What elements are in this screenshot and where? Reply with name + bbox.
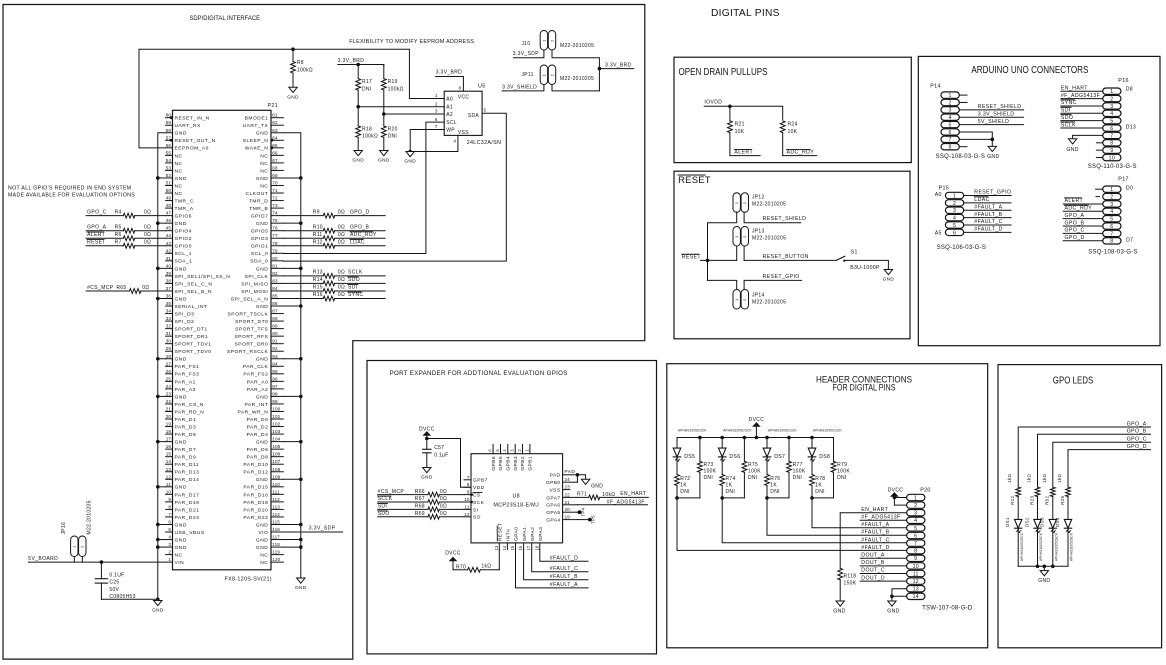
svg-text:GND: GND xyxy=(256,131,268,137)
P14 pin8 stub xyxy=(959,146,967,148)
svg-text:PAR_D15: PAR_D15 xyxy=(243,485,268,491)
svg-text:J10: J10 xyxy=(522,41,531,47)
svg-text:83: 83 xyxy=(272,278,278,283)
svg-text:R70: R70 xyxy=(456,564,466,570)
svg-text:SDA_0: SDA_0 xyxy=(250,259,268,265)
svg-text:3: 3 xyxy=(1110,104,1113,110)
svg-text:115: 115 xyxy=(272,519,280,524)
P16 pin 7 xyxy=(1103,132,1121,138)
P21 left pin 36 GND xyxy=(166,297,173,299)
resistor R13 0 ohm xyxy=(323,273,334,278)
svg-text:GND: GND xyxy=(1038,578,1050,584)
P21 left pin 60 RESET_IN_N xyxy=(166,117,173,119)
svg-text:PAR_D2: PAR_D2 xyxy=(247,424,269,430)
svg-text:R68: R68 xyxy=(415,504,425,510)
svg-text:DNI: DNI xyxy=(748,475,758,481)
svg-text:PAR_D16: PAR_D16 xyxy=(243,492,268,498)
svg-text:GND: GND xyxy=(175,522,187,528)
svg-text:R67: R67 xyxy=(415,496,425,502)
svg-text:R6: R6 xyxy=(115,232,122,238)
P17 pin1 stub xyxy=(1096,188,1103,190)
P21 left pin 39 SPI_SEL1/SPI_SS_N xyxy=(166,275,173,277)
svg-text:CLKOUT: CLKOUT xyxy=(245,191,268,197)
P21 right pin 88 SPORT_DT0 xyxy=(271,320,283,322)
svg-text:GND: GND xyxy=(256,440,268,446)
svg-text:R18: R18 xyxy=(362,127,372,133)
svg-text:JP13: JP13 xyxy=(752,228,765,234)
svg-text:PAR_WR_N: PAR_WR_N xyxy=(237,409,268,415)
svg-text:4: 4 xyxy=(168,535,171,540)
wire J10 pin2 to 3.3V_BRD xyxy=(552,50,599,91)
svg-text:10: 10 xyxy=(913,564,919,570)
svg-text:GPB7: GPB7 xyxy=(473,478,488,484)
jumper J10 M22-2010205 xyxy=(540,31,547,51)
ground symbol R8 xyxy=(289,87,297,92)
svg-text:JP14: JP14 xyxy=(752,292,765,298)
svg-text:0Ω: 0Ω xyxy=(338,224,345,230)
svg-text:2: 2 xyxy=(949,100,952,106)
P16 pin9 stub xyxy=(1096,149,1102,151)
svg-text:3: 3 xyxy=(168,542,171,547)
svg-text:103: 103 xyxy=(272,429,280,434)
U8 left pin 10 SCK xyxy=(464,501,471,503)
resistor R22 1k xyxy=(1016,487,1021,497)
svg-text:PAR_A3: PAR_A3 xyxy=(175,387,196,393)
svg-text:S1: S1 xyxy=(851,250,858,256)
svg-text:DNI: DNI xyxy=(704,475,714,481)
svg-text:100kΩ: 100kΩ xyxy=(388,86,404,92)
resistor R52 1k xyxy=(1050,487,1055,497)
resistor R75 100K DNI xyxy=(743,438,745,462)
svg-text:PAR_D1: PAR_D1 xyxy=(175,417,197,423)
svg-text:112: 112 xyxy=(272,497,280,502)
svg-text:GND: GND xyxy=(256,304,268,310)
svg-text:LDAC: LDAC xyxy=(974,197,989,203)
svg-text:GPB0: GPB0 xyxy=(546,480,561,486)
svg-text:C0805H53: C0805H53 xyxy=(109,594,135,600)
junction dot left bus pin 23 xyxy=(156,395,160,399)
svg-text:SDA: SDA xyxy=(468,113,480,119)
svg-text:53: 53 xyxy=(166,165,172,170)
resistor R71 10k to EN_HART xyxy=(577,496,588,498)
svg-text:SPI_D3: SPI_D3 xyxy=(175,311,195,317)
P21 right pin 101 PAR_D0 xyxy=(271,418,283,420)
P21 left pin 35 SERIAL_INT xyxy=(166,305,173,307)
P21 right pin 100 PAR_WR_N xyxy=(271,410,283,412)
svg-text:GND: GND xyxy=(256,357,268,363)
wire group 3 output xyxy=(767,498,907,535)
svg-text:PAR_D23: PAR_D23 xyxy=(175,515,200,521)
svg-text:#FAULT_A: #FAULT_A xyxy=(550,582,578,588)
junction dot group 2 xyxy=(720,496,724,500)
svg-text:2: 2 xyxy=(914,503,917,509)
svg-text:A2: A2 xyxy=(446,112,453,118)
wire 3.3V_SDP to J10 pin1 xyxy=(514,50,544,58)
svg-text:100K: 100K xyxy=(704,469,717,475)
svg-text:1kΩ: 1kΩ xyxy=(1042,473,1047,482)
svg-text:8: 8 xyxy=(459,85,462,90)
svg-text:20: 20 xyxy=(166,414,172,419)
P21 left pin 12 PAR_D14 xyxy=(166,478,173,480)
svg-text:82: 82 xyxy=(272,271,278,276)
svg-text:R74: R74 xyxy=(726,476,736,482)
wire left GND pin 36 to bus xyxy=(158,297,166,299)
P17 pin 5 xyxy=(1103,215,1121,221)
U8 right pin 20 GPA5 xyxy=(563,511,578,513)
junction dot 3.3V_BRD xyxy=(598,67,602,71)
P21 left pin 49 TMR_C xyxy=(166,200,173,202)
P21 right pin 93 GND xyxy=(271,358,283,360)
svg-text:DNI: DNI xyxy=(793,475,803,481)
svg-text:75: 75 xyxy=(272,218,278,223)
junction dot right bus pin 109 xyxy=(299,477,303,481)
wire P21 pin 85 to R16 xyxy=(283,297,323,299)
U8 left pin 11 SI xyxy=(464,508,471,510)
svg-text:11: 11 xyxy=(465,504,470,509)
junction dot right bus pin 98 xyxy=(299,395,303,399)
wire right GND pin 98 to bus xyxy=(283,395,301,397)
svg-text:GPA4: GPA4 xyxy=(546,518,560,524)
wire P15 pin 2 LDAC xyxy=(964,202,1011,204)
svg-text:GND: GND xyxy=(175,394,187,400)
P17 pin 3 xyxy=(1103,201,1121,207)
svg-text:GND: GND xyxy=(352,158,364,164)
RESET section box xyxy=(674,171,910,339)
wire P16 pin 5 SDO xyxy=(1061,120,1103,122)
svg-text:SDP/DIGITAL INTERFACE: SDP/DIGITAL INTERFACE xyxy=(190,15,261,22)
P21 right pin 105 PAR_D6 xyxy=(271,448,283,450)
svg-text:GPO_B: GPO_B xyxy=(1065,220,1085,226)
OPEN DRAIN PULLUPS section box xyxy=(674,57,911,162)
svg-text:PAR_D4: PAR_D4 xyxy=(247,432,269,438)
svg-text:PAR_INT: PAR_INT xyxy=(245,402,269,408)
P21 right pin 63 GND xyxy=(271,132,283,134)
jumper JP12 M22-2010205 xyxy=(733,193,740,213)
svg-text:5: 5 xyxy=(484,108,487,113)
svg-text:100kΩ: 100kΩ xyxy=(297,68,313,74)
P21 left pin 5 USB_VBUS xyxy=(166,531,173,533)
svg-text:SPI_CLK: SPI_CLK xyxy=(245,274,269,280)
svg-text:RESET_SHIELD: RESET_SHIELD xyxy=(763,216,807,222)
resistor R66 0 ohm xyxy=(428,492,439,497)
wire 3.3V_BRD rail xyxy=(338,65,384,67)
P21 right pin 89 SPORT_TFS xyxy=(271,328,283,330)
svg-text:APHHS1005ZGCK: APHHS1005ZGCK xyxy=(1039,532,1043,561)
U8 left pin 9 CS xyxy=(464,494,471,496)
junction dot right bus pin 81 xyxy=(299,267,303,271)
svg-text:GND: GND xyxy=(175,485,187,491)
svg-text:GND: GND xyxy=(175,266,187,272)
svg-text:94: 94 xyxy=(272,361,278,366)
svg-text:SPORT_RSCLK: SPORT_RSCLK xyxy=(227,349,269,355)
svg-text:7: 7 xyxy=(949,137,952,143)
svg-text:RESET_BUTTON: RESET_BUTTON xyxy=(763,254,809,260)
svg-text:SPORT_DR0: SPORT_DR0 xyxy=(235,342,269,348)
GPO LEDS section box xyxy=(998,365,1162,648)
svg-text:#FAULT_C: #FAULT_C xyxy=(861,537,889,543)
resistor R77 100K DNI xyxy=(788,438,790,462)
svg-text:6: 6 xyxy=(1110,224,1113,230)
junction dot left bus pin 28 xyxy=(156,357,160,361)
junction dot right bus pin 104 xyxy=(299,440,303,444)
U8 left pin 7 GPB7 xyxy=(464,479,471,481)
svg-text:GPO_C: GPO_C xyxy=(87,210,107,216)
U8 bottom pin 14 INTA xyxy=(506,543,508,550)
wire left GND pin 6 to bus xyxy=(158,523,166,525)
svg-text:0Ω: 0Ω xyxy=(338,232,345,238)
P21 left pin 55 NC xyxy=(166,154,173,156)
P21 right pin 106 PAR_D8 xyxy=(271,456,283,458)
P17 pin 1 xyxy=(1103,186,1121,192)
svg-text:GPA7: GPA7 xyxy=(546,495,560,501)
svg-text:PAR_D7: PAR_D7 xyxy=(175,447,197,453)
svg-text:M22-2010205: M22-2010205 xyxy=(560,76,594,82)
svg-text:2: 2 xyxy=(1110,96,1113,102)
wire P17 pin 5 GPO_A xyxy=(1063,218,1103,220)
P15 pin 2 xyxy=(945,200,963,206)
svg-text:SPORT_RFS: SPORT_RFS xyxy=(235,334,269,340)
P14 pin 5 xyxy=(941,121,959,127)
svg-text:FX8-120S-SV(21): FX8-120S-SV(21) xyxy=(225,577,272,583)
LED DS5 xyxy=(676,438,678,449)
svg-text:1: 1 xyxy=(1110,89,1113,95)
wire EN_HART row to R118 xyxy=(840,513,906,569)
svg-text:GND: GND xyxy=(175,545,187,551)
svg-text:66: 66 xyxy=(272,150,278,155)
svg-text:40: 40 xyxy=(166,263,172,268)
svg-text:1kΩ: 1kΩ xyxy=(1027,473,1032,482)
P17 pin 2 xyxy=(1103,193,1121,199)
svg-text:6: 6 xyxy=(914,533,917,539)
svg-text:3: 3 xyxy=(1110,202,1113,208)
svg-text:SCK: SCK xyxy=(473,500,485,506)
ground symbol bottom left xyxy=(154,601,162,606)
svg-text:R118: R118 xyxy=(844,574,857,580)
svg-text:13: 13 xyxy=(166,467,172,472)
svg-text:0Ω: 0Ω xyxy=(440,511,447,517)
svg-text:GND: GND xyxy=(152,608,164,614)
P21 left pin 14 PAR_D11 xyxy=(166,463,173,465)
svg-text:GND: GND xyxy=(175,296,187,302)
ground symbol U8 PAD xyxy=(581,479,589,484)
junction dot U8 CS pin xyxy=(470,493,473,496)
wire P16 pin 3 SYNC xyxy=(1061,105,1103,107)
svg-text:DS6: DS6 xyxy=(729,454,740,460)
svg-text:4: 4 xyxy=(953,216,956,222)
svg-text:0Ω: 0Ω xyxy=(338,239,345,245)
wire P14 pin4 3.3V_SHIELD xyxy=(959,116,1023,118)
P21 right pin 94 PAR_CLK xyxy=(271,365,283,367)
junction dot P20 gnd xyxy=(890,595,894,599)
svg-text:GPO LEDS: GPO LEDS xyxy=(1053,375,1094,386)
svg-text:1: 1 xyxy=(435,93,438,98)
P21 left pin 22 PAR_CS_N xyxy=(166,403,173,405)
svg-text:C25: C25 xyxy=(109,580,119,586)
wire group 3 bottom tie xyxy=(767,497,789,499)
P21 left pin 57 RESET_OUT_N xyxy=(166,139,173,141)
svg-text:PAR_D19: PAR_D19 xyxy=(175,500,200,506)
svg-text:SDI: SDI xyxy=(378,504,388,510)
junction dot U8 SCK pin xyxy=(470,501,473,504)
P21 left pin 48 TMR_A xyxy=(166,207,173,209)
P21 left pin 31 SPORT_DR1 xyxy=(166,335,173,337)
svg-text:NC: NC xyxy=(260,161,268,167)
junction dot VSS gnd xyxy=(408,150,412,154)
svg-text:39: 39 xyxy=(166,271,172,276)
svg-text:38: 38 xyxy=(166,278,172,283)
P21 right pin 73 TMR_B xyxy=(271,207,283,209)
P21 right pin 86 GND xyxy=(271,305,283,307)
svg-text:23: 23 xyxy=(565,485,571,490)
P21 right pin 61 BMODE1 xyxy=(271,117,283,119)
svg-text:GND: GND xyxy=(887,609,899,615)
svg-text:GPA6: GPA6 xyxy=(546,503,560,509)
wire group 1 output xyxy=(677,498,907,551)
svg-text:U8: U8 xyxy=(512,493,520,499)
P21 left pin 46 GND xyxy=(166,222,173,224)
wire GPO_A to LED column xyxy=(1018,427,1150,487)
resistor R68 0 ohm xyxy=(428,507,439,512)
P21 left pin 15 PAR_D9 xyxy=(166,456,173,458)
svg-text:4: 4 xyxy=(1110,209,1113,215)
svg-text:NC: NC xyxy=(175,183,183,189)
svg-text:67: 67 xyxy=(272,158,278,163)
svg-text:50V: 50V xyxy=(109,587,119,593)
connector P21 body xyxy=(173,110,272,570)
P17 pin 8 xyxy=(1103,238,1121,244)
wire U8 GPA2 to #FAULT_C xyxy=(532,550,588,572)
P21 right pin 66 NC xyxy=(271,154,283,156)
svg-text:ARDUINO UNO CONNECTORS: ARDUINO UNO CONNECTORS xyxy=(971,65,1088,76)
P21 right pin 75 GND xyxy=(271,222,283,224)
wire left GND pin 40 to bus xyxy=(158,267,166,269)
P21 left pin 1 VIN xyxy=(166,561,173,563)
U8 right pin 22 GPA7 xyxy=(563,496,578,498)
svg-text:PAR_D20: PAR_D20 xyxy=(243,507,268,513)
wire P21 pin 74 to R9 xyxy=(283,215,323,217)
power DVCC header box xyxy=(753,423,759,426)
P16 pin 6 xyxy=(1103,125,1121,131)
svg-text:8: 8 xyxy=(467,482,470,487)
junction dot PAD xyxy=(576,473,580,477)
svg-text:GPA2: GPA2 xyxy=(530,527,536,541)
P21 left pin 52 GND xyxy=(166,177,173,179)
svg-text:6: 6 xyxy=(168,519,171,524)
P21 left pin 24 PAR_A3 xyxy=(166,388,173,390)
svg-text:DNI: DNI xyxy=(726,489,736,495)
power DVCC at R70 xyxy=(450,557,456,560)
svg-text:NC: NC xyxy=(260,560,268,566)
svg-text:12: 12 xyxy=(166,474,172,479)
svg-text:5V_BOARD: 5V_BOARD xyxy=(28,556,58,562)
svg-text:64: 64 xyxy=(272,135,278,140)
svg-text:PAR_D3: PAR_D3 xyxy=(175,424,197,430)
capacitor C57 xyxy=(426,439,428,450)
svg-text:RESET: RESET xyxy=(682,255,702,261)
resistor R23 1k xyxy=(1035,487,1040,497)
wire DVCC bus header xyxy=(677,437,834,439)
svg-text:U5: U5 xyxy=(478,83,486,89)
wire left GND pin 52 to bus xyxy=(158,177,166,179)
svg-text:SCLK: SCLK xyxy=(378,496,393,502)
svg-text:NC: NC xyxy=(260,183,268,189)
wire P14 pin3 RESET_SHIELD xyxy=(959,109,1023,111)
P21 right pin 98 GND xyxy=(271,395,283,397)
wire 3.3V_BRD to U5 VCC pin 8 xyxy=(436,77,464,92)
svg-text:3.3V_SHIELD: 3.3V_SHIELD xyxy=(978,111,1015,117)
U8 left pin 12 SO xyxy=(464,516,471,518)
resistor R72 1K DNI xyxy=(676,457,678,475)
power DVCC at P20 xyxy=(891,493,897,496)
wire P15 pin 6 #FAULT_D xyxy=(964,231,1011,233)
svg-text:10: 10 xyxy=(166,489,172,494)
svg-text:M22-2010205: M22-2010205 xyxy=(560,43,594,49)
svg-text:24: 24 xyxy=(166,384,172,389)
svg-text:R15: R15 xyxy=(313,285,323,291)
svg-text:TMR_A: TMR_A xyxy=(175,206,194,212)
P21 right pin 95 PAR_FS2 xyxy=(271,373,283,375)
svg-text:R71: R71 xyxy=(577,491,587,497)
svg-text:R9: R9 xyxy=(313,209,320,215)
wire P17 pin 7 GPO_C xyxy=(1063,232,1103,234)
svg-text:INTA: INTA xyxy=(506,528,512,541)
svg-text:SI: SI xyxy=(473,507,478,513)
svg-text:DOUT_D: DOUT_D xyxy=(861,575,885,581)
svg-text:0Ω: 0Ω xyxy=(338,285,345,291)
junction dot VIN/C25 xyxy=(100,560,104,564)
svg-text:24LC32A/SN: 24LC32A/SN xyxy=(467,140,501,146)
wire JP12 pin1 to RESET bus xyxy=(708,212,737,280)
svg-text:M22-2010205: M22-2010205 xyxy=(752,235,786,241)
svg-text:68: 68 xyxy=(272,165,278,170)
svg-text:SPI_MOSI: SPI_MOSI xyxy=(241,289,268,295)
svg-text:26: 26 xyxy=(166,369,172,374)
svg-text:GND: GND xyxy=(175,440,187,446)
resistor R65 0 ohm xyxy=(129,289,141,294)
LED DS7 xyxy=(766,438,768,449)
P21 right pin 115 GND xyxy=(271,523,283,525)
P14 pin 7 xyxy=(941,136,959,142)
svg-text:DNI: DNI xyxy=(362,86,372,92)
U8 top pin 2 GPB2 xyxy=(522,444,524,453)
svg-text:R26: R26 xyxy=(1060,496,1065,505)
U8 bottom pin 17 GPA2 xyxy=(531,543,533,550)
resistor R6 0 ohm xyxy=(123,236,135,241)
svg-text:GND: GND xyxy=(175,537,187,543)
svg-text:RESET: RESET xyxy=(498,523,504,541)
P21 left pin 26 PAR_FS3 xyxy=(166,373,173,375)
svg-text:8: 8 xyxy=(168,504,171,509)
P21 left pin 45 GPIO4 xyxy=(166,230,173,232)
P16 pin 10 xyxy=(1103,154,1121,160)
wire P21 pin 78 to R12 xyxy=(283,245,323,247)
svg-text:R73: R73 xyxy=(704,462,714,468)
P21 left pin 10 PAR_D17 xyxy=(166,493,173,495)
svg-text:R16: R16 xyxy=(313,292,323,298)
P21 right pin 111 PAR_D16 xyxy=(271,493,283,495)
resistor R118 150K xyxy=(838,568,843,580)
P14 pin 8 xyxy=(941,143,959,149)
svg-text:69: 69 xyxy=(272,173,278,178)
svg-text:0Ω: 0Ω xyxy=(338,209,345,215)
wire right GND pin 69 to bus xyxy=(283,177,301,179)
P21 left pin 50 NC xyxy=(166,192,173,194)
wire P14 pin7 to GND xyxy=(959,138,992,140)
junction dot gpo bus DS3 xyxy=(1051,565,1055,569)
svg-text:SDA_1: SDA_1 xyxy=(175,259,193,265)
wire P16 pin 2 #F_ADG5413F xyxy=(1061,98,1103,100)
P21 right pin 110 PAR_D15 xyxy=(271,486,283,488)
